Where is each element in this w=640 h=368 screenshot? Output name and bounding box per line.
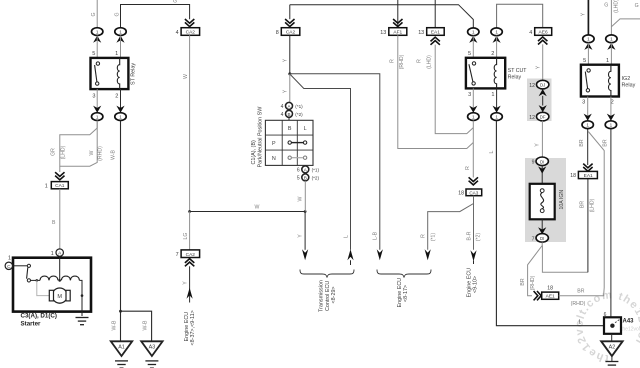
svg-text:4: 4 <box>176 30 179 36</box>
svg-text:Engine ECU: Engine ECU <box>184 312 190 342</box>
svg-text:W-B: W-B <box>111 149 117 160</box>
svg-text:P: P <box>272 141 276 147</box>
wire W below CA2 <box>183 35 190 211</box>
svg-text:3: 3 <box>468 92 471 98</box>
svg-text:Y: Y <box>283 89 289 93</box>
svg-text:B-R: B-R <box>466 231 472 240</box>
wire Y from CA2-8 down to node <box>283 35 292 75</box>
connector 6 (A) PNP bottom <box>297 166 320 174</box>
svg-text:Transmission: Transmission <box>319 280 325 312</box>
svg-text:(RHD): (RHD) <box>98 146 104 161</box>
wire U-link DI to EA1-18 (LHD) <box>542 246 588 273</box>
wire L-B down arrow <box>372 231 383 260</box>
svg-text:BR: BR <box>577 289 584 295</box>
svg-text:B: B <box>288 126 292 132</box>
svg-text:C3(A), D1(C): C3(A), D1(C) <box>21 313 57 320</box>
wire top feed CA2-8 to ST CUT pin 5 <box>290 5 474 28</box>
label C1(A),(B) Park/Neutral Position SW <box>251 106 263 168</box>
svg-text:Engine ECU: Engine ECU <box>397 278 403 308</box>
wire pin5 stub <box>96 36 98 58</box>
svg-text:Park/Neutral Position SW: Park/Neutral Position SW <box>258 106 264 168</box>
svg-text:W: W <box>255 205 260 211</box>
label Engine ECU 9-10 <box>466 268 478 298</box>
wire Y to IG2 pin 5 <box>581 0 589 35</box>
connector 13 EA1 <box>418 0 444 45</box>
connector oval 1 (ST CUT pin 3) <box>468 106 479 121</box>
svg-text:R: R <box>417 59 423 63</box>
svg-text:G: G <box>91 12 97 16</box>
wire node to L-B branch <box>290 74 380 250</box>
svg-text:B: B <box>52 220 56 226</box>
svg-text:<8-37>,<9-11>: <8-37>,<9-11> <box>190 310 196 345</box>
connector oval 1 (ST relay pin 5) <box>92 28 103 43</box>
wire BR (RHD) from AE1 to IG2 pin3 branch <box>559 289 605 307</box>
svg-text:AF1: AF1 <box>393 30 402 36</box>
wire IG2 pin2 stub <box>610 97 612 121</box>
svg-text:Relay: Relay <box>508 74 522 80</box>
wire BR RHD branch from IG2 pin3 <box>588 132 608 296</box>
shading behind DJ/DF junction connectors <box>527 79 552 122</box>
wire ST CUT pin1 stub <box>496 88 498 112</box>
svg-text:EA1: EA1 <box>584 173 593 179</box>
shading behind IGN fuse block <box>525 158 566 242</box>
wire Y from DF to DI <box>535 121 543 157</box>
connector 5 (B) PNP bottom <box>297 174 320 182</box>
svg-text:Y: Y <box>283 58 289 62</box>
svg-text:LG: LG <box>183 233 189 240</box>
svg-text:L: L <box>343 235 349 238</box>
watermark the12volt.com <box>573 289 640 364</box>
connector 18 EA1 <box>570 164 597 180</box>
starter ground <box>76 318 89 325</box>
svg-text:Relay: Relay <box>622 83 636 89</box>
wire W-B to grounds <box>111 121 152 342</box>
svg-text:L: L <box>304 126 307 132</box>
wire pin1 stub <box>120 36 122 58</box>
svg-text:5: 5 <box>297 176 300 182</box>
wire R (*1) branch from CA3 <box>428 196 474 250</box>
wire ST CUT pin3 stub <box>472 88 474 112</box>
svg-text:(LHD): (LHD) <box>60 145 66 159</box>
svg-text:1: 1 <box>115 51 118 57</box>
wire L from ST CUT pin1 to ground point A43 <box>489 121 612 326</box>
svg-text:6: 6 <box>297 168 300 174</box>
svg-text:C1(A), (B): C1(A), (B) <box>251 140 257 164</box>
svg-text:(RHD): (RHD) <box>399 54 405 69</box>
svg-text:CA1: CA1 <box>55 183 65 189</box>
connector oval 1 (ST CUT pin 1) <box>491 106 502 121</box>
brace Transmission Control ECU <box>300 270 354 313</box>
wire node diagonal to L branch <box>290 74 351 250</box>
svg-text:W: W <box>298 196 304 201</box>
svg-text:Y: Y <box>535 143 541 147</box>
svg-text:1: 1 <box>51 251 54 257</box>
wire pin2 stub <box>120 89 122 113</box>
svg-text:ST Relay: ST Relay <box>131 63 137 85</box>
svg-text:R: R <box>389 59 395 63</box>
svg-text:2: 2 <box>491 51 494 57</box>
svg-text:<9-10>: <9-10> <box>473 276 479 293</box>
connector 4 AE6 <box>529 28 551 45</box>
svg-text:5: 5 <box>468 51 471 57</box>
ground point A3 <box>141 341 162 368</box>
svg-text:10A IGN: 10A IGN <box>559 190 565 210</box>
svg-text:3: 3 <box>92 94 95 100</box>
svg-text:Y: Y <box>581 12 587 16</box>
wire L up-arrow from Transmission ECU <box>343 235 353 265</box>
svg-text:N: N <box>272 156 276 162</box>
svg-text:W-B: W-B <box>111 320 117 331</box>
connector 1 CA1 <box>45 166 69 189</box>
wire B to starter <box>52 189 60 249</box>
svg-text:<8-17>: <8-17> <box>403 285 409 302</box>
starter box <box>13 258 91 312</box>
svg-text:12: 12 <box>529 83 535 89</box>
starter internal circuit <box>13 256 84 316</box>
connector 12 (DJ) <box>529 80 549 96</box>
wire R (RHD) from AF1 <box>389 35 473 148</box>
wire GR (LHD) branch <box>50 121 97 167</box>
connector 18 AE1 <box>534 286 559 301</box>
svg-text:13: 13 <box>380 30 386 36</box>
connector oval 1 (ST CUT pin 5) <box>468 28 479 43</box>
svg-text:CA2: CA2 <box>286 30 296 36</box>
svg-text:Y: Y <box>536 65 542 69</box>
connector oval 1 (IG2 pin 3) <box>582 114 593 129</box>
svg-text:Control ECU: Control ECU <box>325 281 331 311</box>
wire ST CUT pin5 stub <box>472 36 474 58</box>
fuse 10A IGN <box>530 184 565 220</box>
svg-text:7: 7 <box>176 252 179 258</box>
wire ST CUT pin2 stub <box>496 36 498 58</box>
svg-text:BR: BR <box>520 278 526 285</box>
wire Y to Engine ECU <box>183 266 193 302</box>
svg-text:(*1): (*1) <box>312 168 320 173</box>
svg-text:A1: A1 <box>118 344 125 350</box>
svg-text:(*2): (*2) <box>295 112 303 117</box>
wire R (LHD) from EA1 <box>417 45 474 134</box>
wire G to ST relay pin 1 <box>114 0 189 28</box>
svg-text:(LHD): (LHD) <box>590 198 596 212</box>
svg-text:ST CUT: ST CUT <box>508 68 527 74</box>
svg-text:B: B <box>304 175 307 180</box>
svg-text:Starter: Starter <box>21 321 42 328</box>
wire Y down to Transmission ECU <box>298 212 309 261</box>
ground point A1 <box>111 341 132 368</box>
svg-text:IG2: IG2 <box>622 76 631 82</box>
svg-text:DJ: DJ <box>540 83 545 88</box>
svg-text:A3: A3 <box>149 344 156 350</box>
svg-text:18: 18 <box>547 286 553 292</box>
connector oval 1 (ST relay pin 3) <box>92 106 103 121</box>
svg-text:(*2): (*2) <box>476 233 482 242</box>
connector 9 (DI) <box>532 157 549 184</box>
connector oval 1 (IG2 pin 2) <box>605 114 616 129</box>
ground point box A43 <box>604 317 634 334</box>
svg-text:4: 4 <box>281 104 284 110</box>
wire Y from AE6 to DJ <box>536 44 543 80</box>
svg-text:(*2): (*2) <box>312 176 320 181</box>
wire IG2 pin3 stub <box>587 97 589 121</box>
connector oval 1 (ST relay pin 1) <box>115 28 126 43</box>
svg-text:CA2: CA2 <box>186 252 196 258</box>
svg-text:4: 4 <box>529 30 532 36</box>
svg-text:9: 9 <box>532 160 535 166</box>
svg-text:(*1): (*1) <box>430 233 436 242</box>
svg-text:Engine ECU: Engine ECU <box>466 268 472 298</box>
svg-text:DF: DF <box>540 115 546 120</box>
connector oval 1 (IG2 pin 1) <box>606 35 617 50</box>
svg-text:(LHD): (LHD) <box>427 55 433 69</box>
wire W (RHD) branch <box>60 121 104 167</box>
wire G RHD merge from right edge <box>611 3 640 27</box>
wire BR from IG2 pin3 <box>579 129 588 165</box>
connector 7 (DI) <box>532 219 549 242</box>
svg-text:L-B: L-B <box>372 231 378 240</box>
connector 4 (B) PNP <box>281 110 304 118</box>
wire G to ST relay pin 5 <box>91 0 97 28</box>
connector oval 1 (ST relay pin 2) <box>115 106 126 121</box>
connector oval 1 (ST CUT pin 2) <box>491 28 502 43</box>
svg-text:W: W <box>89 150 95 155</box>
svg-text:<8-29>: <8-29> <box>331 286 337 303</box>
svg-text:7: 7 <box>532 236 535 242</box>
svg-text:18: 18 <box>458 191 464 197</box>
svg-text:A43: A43 <box>623 319 635 325</box>
connector 12 (DF) <box>529 96 549 121</box>
label Engine ECU 8-37 9-11 <box>184 310 196 345</box>
svg-text:1: 1 <box>45 183 48 189</box>
wire BR (RHD) to AE1 <box>520 242 542 296</box>
svg-text:W: W <box>183 74 189 79</box>
svg-text:12: 12 <box>529 115 535 121</box>
svg-text:B: B <box>287 112 290 117</box>
svg-text:(RHD): (RHD) <box>530 275 536 290</box>
svg-text:GR: GR <box>50 148 56 156</box>
svg-text:CA3: CA3 <box>469 190 478 195</box>
svg-text:1: 1 <box>578 320 581 326</box>
svg-text:(RHD): (RHD) <box>571 301 586 307</box>
svg-text:DI: DI <box>540 236 544 241</box>
wire BR (*2) from CA3 <box>466 196 481 264</box>
wire LG to connector 7 CA2 <box>183 212 190 251</box>
svg-text:W-B: W-B <box>143 320 149 331</box>
wire W horizontal <box>188 205 306 213</box>
svg-text:1: 1 <box>8 256 11 262</box>
ground triangle A2 <box>601 334 622 368</box>
svg-text:(LHD): (LHD) <box>614 0 620 13</box>
relay ST CUT Relay <box>466 51 527 98</box>
svg-text:L: L <box>489 150 495 153</box>
starter caption <box>21 313 57 328</box>
relay ST Relay <box>91 51 137 100</box>
svg-text:Y: Y <box>183 281 189 285</box>
wire BR from IG2 pin2 down to A43 <box>604 129 611 326</box>
svg-text:G: G <box>635 3 639 9</box>
relay IG2 Relay <box>581 58 636 106</box>
connector 7 CA2 <box>176 250 200 266</box>
connector 4 CA2 <box>176 19 200 36</box>
svg-text:AE1: AE1 <box>546 294 555 300</box>
svg-text:DI: DI <box>540 159 544 164</box>
wire W from PNP to node <box>298 181 306 212</box>
connector oval 1 (IG2 pin 5) <box>583 35 594 50</box>
wire IG2 pin1 stub <box>610 43 612 65</box>
wire G (LHD) to IG2 pin 1 <box>604 0 619 35</box>
svg-text:1: 1 <box>491 92 494 98</box>
svg-text:M: M <box>57 294 62 300</box>
wire R (*1) down arrow <box>421 233 437 261</box>
svg-text:AE6: AE6 <box>539 30 548 36</box>
connector 8 CA2 <box>276 5 300 36</box>
svg-text:BR: BR <box>603 139 609 146</box>
svg-text:5: 5 <box>92 51 95 57</box>
svg-text:3: 3 <box>582 100 585 106</box>
starter motor M <box>49 288 70 303</box>
svg-text:R: R <box>421 234 427 238</box>
svg-text:A2: A2 <box>609 344 616 350</box>
svg-text:2: 2 <box>115 94 118 100</box>
park/neutral position switch table <box>265 117 313 165</box>
svg-text:BR: BR <box>579 139 585 146</box>
svg-text:4: 4 <box>281 112 284 118</box>
svg-text:the12volt.com: the12volt.com <box>621 327 640 333</box>
connector 1 (A) starter <box>51 249 64 257</box>
svg-text:G: G <box>604 3 608 9</box>
svg-text:CA2: CA2 <box>186 30 196 36</box>
svg-text:C: C <box>7 264 11 270</box>
svg-text:EA1: EA1 <box>431 30 440 36</box>
svg-text:1: 1 <box>606 58 609 64</box>
svg-text:5: 5 <box>583 58 586 64</box>
svg-text:18: 18 <box>570 173 576 179</box>
svg-text:8: 8 <box>276 30 279 36</box>
svg-text:R: R <box>465 166 471 170</box>
connector 13 AF1 <box>380 0 407 36</box>
connector 18 CA3 <box>458 177 481 196</box>
wire pin3 stub <box>96 89 98 113</box>
brace Engine ECU 8-17 <box>377 270 431 308</box>
wire IG2 pin5 stub <box>587 43 589 65</box>
svg-text:(*1): (*1) <box>295 104 303 109</box>
svg-text:Y: Y <box>298 234 304 238</box>
connector 4 (A) PNP <box>281 102 304 110</box>
svg-text:13: 13 <box>418 30 424 36</box>
connector 1 (C) starter <box>5 256 12 270</box>
svg-text:BR: BR <box>580 201 586 208</box>
wire Y node to PNP switch <box>283 74 290 103</box>
wire R to CA3 <box>465 121 473 178</box>
svg-text:G: G <box>114 12 120 16</box>
svg-text:G: G <box>173 0 177 5</box>
wire BR (LHD) EA1 leg <box>580 178 596 272</box>
wire ST CUT pin 2 to AE6 <box>497 4 543 28</box>
